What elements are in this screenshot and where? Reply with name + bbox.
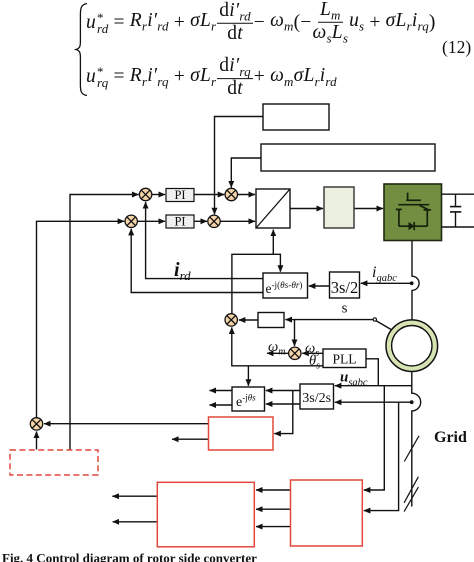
wire PLL omega_s to SW (302, 352, 323, 354)
wire i_rq feedback to S3 (131, 229, 263, 293)
wire from summer SB up to summer S3 (37, 221, 125, 418)
e^-jths transform block (232, 387, 265, 411)
wire theta angle chain to transform blocks (232, 254, 281, 314)
slash phase mark upper (404, 436, 419, 462)
wire dashed box stub to SB (36, 432, 38, 450)
equation line 1 (86, 0, 436, 44)
wire encoder box M to summer SB (44, 423, 209, 425)
wire PI2 to S4 (194, 220, 207, 222)
wire machine down to grid with hop (412, 372, 421, 507)
svg-text:Grid: Grid (434, 429, 467, 446)
wire speed tap to integrator box (285, 319, 373, 321)
slash phase marks lower pair (404, 477, 418, 503)
capacitor C plates (450, 206, 461, 208)
wires between grid boxes (256, 489, 291, 491)
svg-text:ird: ird (174, 259, 191, 283)
svg-text:PLL: PLL (332, 352, 356, 367)
PI controller 1 (166, 188, 194, 202)
summing junction ST (theta) (225, 314, 237, 326)
wire bus1 branch down to grid box R (364, 386, 385, 490)
equation number (12) (442, 37, 471, 58)
machine (generator) double circle (386, 320, 438, 372)
grid-side box L (red) (157, 482, 254, 547)
summing junction S2 (225, 188, 237, 200)
svg-text:s: s (342, 301, 348, 317)
reference dashed box (10, 450, 98, 475)
block B2 (empty) (261, 144, 435, 171)
wire e-jths outputs dangling (210, 390, 233, 392)
wire omega_m output (267, 352, 289, 354)
wire outputs of grid box L (112, 495, 157, 497)
wire 3s/2 to e-j(ths-thr) (309, 285, 330, 287)
svg-text:PI: PI (174, 188, 185, 202)
junction dot on i_gabc tap (410, 281, 414, 285)
summing junction SW (omega) (289, 347, 301, 359)
svg-text:ωm: ωm (268, 339, 285, 358)
summing junction SB (bottom left) (30, 418, 42, 430)
wire PI1 to S2 (194, 194, 224, 196)
wire 3s/2s to e-jths line 1 (266, 390, 300, 392)
summing junction S4 (208, 215, 220, 227)
wire 3s/2s to e-jths line 2 (266, 403, 300, 405)
e^-j(ths-thr) transform block (263, 273, 308, 298)
wire S3 to PI2 (137, 220, 165, 222)
wire M output dangling (172, 438, 209, 440)
brush contact circle (373, 318, 376, 321)
wire i_rd feedback to S1 (146, 202, 263, 279)
block B1 (empty) (263, 104, 329, 130)
wire branch down to encoder box M (274, 391, 293, 434)
encoder box M (red) (209, 417, 274, 450)
wire dc link bottom (442, 226, 474, 228)
junction dot on u bus line2 (410, 400, 414, 404)
wire branch down to summer SW (294, 320, 296, 346)
wire converter down to machine with hop (412, 241, 419, 321)
summing junction S3 (125, 215, 137, 227)
converter block (green) with IGBT (384, 184, 442, 241)
wire u bus line 2 to 3s/2s (335, 401, 412, 403)
wire u bus line 1 to 3s/2s (335, 385, 412, 387)
wire divider to PWM box (290, 208, 323, 210)
wire from block B2 to summer S2 (231, 158, 261, 188)
wire dc link top (442, 193, 474, 195)
wire S4 to divider box (220, 220, 255, 222)
svg-text:3s/2s: 3s/2s (302, 391, 331, 406)
svg-text:Fig. 4 Control diagram of roto: Fig. 4 Control diagram of rotor side con… (2, 551, 257, 562)
wire S2 to divider box (238, 194, 256, 196)
wire PLL input from bus (366, 359, 378, 386)
svg-text:igabc: igabc (372, 264, 397, 284)
PLL block (323, 349, 366, 368)
wire PWM box to converter (354, 208, 383, 210)
PI controller 2 (166, 215, 194, 229)
wire reference from dashed box up to summer S1 (70, 195, 139, 450)
summing junction S1 (139, 188, 151, 200)
wire from block B1 to summer S4 (215, 117, 264, 215)
brace { (76, 4, 87, 96)
3s/2s block (300, 384, 334, 409)
capacitor C leads (455, 194, 457, 206)
equation line 2 (86, 57, 337, 99)
wire theta_s from PLL to ST and branch (232, 327, 323, 365)
wire integrator to summer ST (239, 319, 258, 321)
3s/2 block (330, 272, 360, 317)
wire branch down into e-jths (247, 366, 249, 386)
wire brush diagonal (376, 321, 393, 331)
svg-text:PI: PI (174, 215, 185, 229)
svg-text:3s/2: 3s/2 (331, 278, 359, 297)
wire i_gabc tap to 3s/2 (361, 282, 412, 284)
wire bus2 branch down to grid box R (364, 402, 399, 510)
PWM block (pale green) (324, 187, 354, 228)
divider block (256, 189, 290, 228)
grid-side box R (red) (291, 480, 363, 546)
wire branch up into divider bottom (272, 230, 274, 255)
integrator box (empty) (258, 313, 284, 328)
wire S1 to PI1 (152, 194, 165, 196)
